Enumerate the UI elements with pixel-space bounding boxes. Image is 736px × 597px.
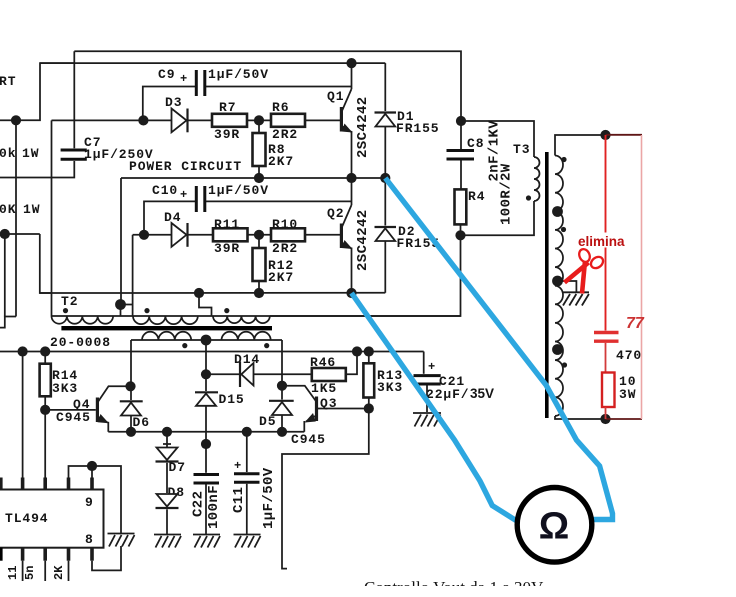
- resistor R13: [363, 363, 374, 397]
- resistor R46: [312, 368, 346, 381]
- capacitor C22 bottom lead: [205, 485, 207, 535]
- svg-text:C945: C945: [56, 410, 91, 425]
- capacitor C22 lead: [205, 444, 207, 473]
- node R46 supply tap: [352, 346, 362, 356]
- TL494 top pin stub 1: [0, 478, 3, 491]
- ground symbol under C21: [413, 413, 441, 427]
- wire winding2/3 junction riser: [199, 293, 212, 316]
- resistor bottom lead (red): [605, 407, 607, 419]
- wire corner down to lower drive wire: [40, 234, 51, 293]
- node T3 secondary top junction: [600, 130, 610, 140]
- wire right rail (faint pink): [641, 135, 643, 419]
- wire probe lead B (blue, from Q2 emitter node): [352, 293, 517, 521]
- wire rail x=22.6 down to TL494: [22, 352, 24, 479]
- transistor Q1 bar: [340, 107, 343, 132]
- node R11/R10/R12 junction: [254, 230, 264, 240]
- transformer T3 core: [545, 152, 549, 418]
- wire R4 bottom down to T2 primary return: [270, 235, 461, 316]
- resistor R4 bottom lead: [460, 224, 462, 235]
- ground symbol at T3 tap: [563, 292, 589, 305]
- label elimina (red, on white patch): [576, 233, 628, 248]
- svg-text:2R2: 2R2: [272, 127, 298, 142]
- wire base row y=235 (Q2 half): [133, 234, 340, 236]
- T2 secondary phase dot right: [264, 343, 269, 348]
- svg-text:20-0008: 20-0008: [50, 335, 111, 350]
- capacitor C9 left lead: [143, 87, 195, 121]
- svg-text:Q1: Q1: [327, 89, 344, 104]
- wire probe lead A (blue, from D1 node): [385, 178, 612, 520]
- capacitor C11 bottom lead: [246, 484, 248, 534]
- svg-text:0k: 0k: [0, 146, 16, 161]
- svg-text:1µF/50V: 1µF/50V: [261, 467, 277, 529]
- TL494 top pin stub 3: [43, 478, 47, 491]
- wire jog at rails bottom: [0, 317, 16, 328]
- TL494 top pin stub 4: [67, 478, 71, 491]
- svg-text:2SC4242: 2SC4242: [355, 96, 371, 158]
- diode D2 top lead: [384, 178, 386, 226]
- transistor Q2 bar: [340, 224, 343, 249]
- capacitor C11 lead: [246, 432, 248, 472]
- node supply to TL494 rail 1: [18, 346, 28, 356]
- svg-text:R4: R4: [468, 189, 485, 204]
- capacitor C10 plates: [195, 186, 198, 212]
- svg-text:77: 77: [626, 315, 645, 332]
- node D6 bottom: [126, 427, 136, 437]
- svg-text:2K7: 2K7: [268, 270, 294, 285]
- svg-text:Ω: Ω: [539, 506, 569, 548]
- diode D15 (cathode bar up): [205, 374, 207, 391]
- svg-text:elimina: elimina: [578, 234, 625, 249]
- capacitor C11 plates: [234, 472, 260, 475]
- T2 phase dot winding 1: [63, 308, 68, 313]
- wire bottom pin 3 lead: [44, 561, 46, 581]
- node D5 top: [277, 381, 287, 391]
- T3 secondary tap dot small top: [561, 157, 566, 162]
- wire to T3 primary top: [461, 121, 534, 157]
- transistor Q3 collector diagonal: [282, 386, 316, 402]
- wire emitter row y=431.8: [108, 431, 304, 433]
- wire blob down to baseline: [120, 305, 122, 317]
- node Q2 emitter / probe tap: [346, 288, 356, 298]
- transistor Q3 emitter with arrow: [306, 416, 316, 422]
- svg-text:T3: T3: [513, 142, 530, 157]
- resistor R14: [40, 364, 51, 397]
- wire pin 9 to ground column: [92, 466, 121, 533]
- svg-text:1µF/50V: 1µF/50V: [208, 183, 269, 198]
- wire blob to winding2 start: [121, 304, 133, 306]
- TL494 bottom pin stub 1: [0, 548, 3, 561]
- wire emitter row y=178: [121, 177, 385, 179]
- node Q1 emitter / Q2 collector: [346, 173, 356, 183]
- svg-text:C11: C11: [231, 487, 247, 513]
- svg-text:C9: C9: [158, 67, 175, 82]
- T3 secondary tap blob 3: [552, 344, 563, 355]
- resistor R8: [253, 133, 266, 166]
- node R13 bottom / Q3 base: [364, 403, 374, 413]
- capacitor C9 plates: [195, 70, 198, 96]
- node R4 bottom junction: [455, 230, 465, 240]
- wire bus y=63 from corner to D1 column: [40, 62, 385, 64]
- wire emitter row y=293: [40, 292, 386, 294]
- diode D1 top lead: [384, 63, 386, 111]
- svg-text:1W: 1W: [23, 202, 40, 217]
- svg-text:D3: D3: [165, 95, 182, 110]
- wire tap to ground: [558, 281, 577, 292]
- T3 secondary tap dot small 2: [561, 227, 566, 232]
- diode D2 (cathode bar up): [375, 226, 397, 228]
- capacitor 470uF plates (red): [594, 331, 619, 334]
- wire top rail y=51 from C7 to C8 column: [74, 51, 461, 118]
- T3 secondary bottom lead: [555, 416, 606, 419]
- capacitor C21 top lead from supply row: [423, 352, 425, 374]
- capacitor C22 plates: [194, 473, 220, 476]
- node junction at (16,120): [11, 115, 21, 125]
- svg-text:2R2: 2R2: [272, 241, 298, 256]
- resistor R12 leads: [258, 235, 260, 248]
- capacitor C10 right lead: [206, 200, 352, 202]
- TL494 bottom pin stub 2: [21, 548, 25, 561]
- resistor R6: [271, 114, 305, 127]
- node D4 anode junction: [139, 230, 149, 240]
- wire pin 8 to ground: [92, 546, 121, 570]
- svg-text:39R: 39R: [214, 127, 240, 142]
- ground symbol under D8: [154, 535, 181, 548]
- vertical rail x=5 down: [4, 234, 6, 317]
- TL494 bottom pin stub 3: [43, 548, 47, 561]
- T3 secondary tap blob 2 (ground tap): [552, 276, 563, 287]
- resistor R7: [212, 114, 247, 127]
- svg-text:1W: 1W: [22, 146, 39, 161]
- node D1 bottom / probe tap: [380, 173, 390, 183]
- node D6 top / T2 left lead: [125, 381, 135, 391]
- svg-text:+: +: [234, 459, 241, 473]
- svg-text:RT: RT: [0, 74, 16, 89]
- svg-text:35V: 35V: [470, 386, 494, 401]
- node C11 top: [242, 427, 252, 437]
- wire output cap column (red): [605, 135, 607, 331]
- capacitor C8 bottom lead: [460, 161, 462, 190]
- node R14 bottom / Q4 base: [40, 405, 50, 415]
- TL494 bottom pin stub 4: [67, 548, 71, 561]
- transistor Q4 bar: [96, 398, 99, 423]
- transistor Q1 emitter with arrow: [342, 126, 352, 132]
- node supply to R14: [40, 346, 50, 356]
- diode D7 (pointing down): [166, 432, 168, 447]
- transistor Q4 collector diagonal: [98, 386, 131, 402]
- wire from left edge at y=120: [0, 119, 16, 121]
- node pin 9 junction: [87, 461, 97, 471]
- svg-text:R11: R11: [214, 217, 240, 232]
- resistor R4: [455, 189, 467, 224]
- svg-text:R7: R7: [219, 100, 236, 115]
- capacitor to resistor lead (red): [605, 343, 607, 373]
- wire T2 secondary baseline: [131, 339, 282, 341]
- ground symbol under C11: [234, 535, 261, 548]
- T2 winding1/2 junction blob: [115, 299, 126, 310]
- diode D2 bottom lead: [384, 241, 386, 293]
- node R7/R6/R8 junction: [254, 115, 264, 125]
- resistor R14 top lead: [44, 352, 46, 364]
- resistor R14 bottom lead: [44, 396, 46, 410]
- transformer T3 secondary winding: [555, 156, 563, 416]
- transistor Q2 emitter with arrow: [342, 243, 352, 249]
- node R13 top: [364, 346, 374, 356]
- svg-text:TL494: TL494: [5, 511, 49, 526]
- wire pin 10 riser: [69, 466, 93, 478]
- diode D6 (cathode bar up): [130, 386, 132, 400]
- resistor R10: [271, 228, 305, 241]
- svg-text:100R/2W: 100R/2W: [499, 163, 515, 225]
- svg-text:0K: 0K: [0, 202, 16, 217]
- node top bus junction at Q1 collector: [346, 58, 356, 68]
- svg-text:R6: R6: [272, 100, 289, 115]
- node D3 anode junction: [138, 115, 148, 125]
- capacitor C8 plates: [447, 149, 475, 152]
- transformer T2 core: [61, 326, 272, 330]
- T2 secondary center tap blob: [201, 335, 212, 346]
- diode D4: [172, 223, 187, 247]
- node T3 secondary bottom junction: [600, 414, 610, 424]
- diode D3: [172, 109, 187, 133]
- vertical rail x=16 down: [15, 120, 17, 316]
- wire Q2 collector riser: [351, 178, 353, 205]
- wire rail x=121 down to T2: [120, 178, 122, 305]
- svg-text:C945: C945: [291, 432, 326, 447]
- node C8/R4 top junction: [456, 116, 466, 126]
- svg-text:2K: 2K: [52, 565, 66, 580]
- IC TL494 body: [0, 490, 104, 548]
- capacitor C7 bottom lead to left edge: [0, 161, 74, 178]
- ground symbol TL494: [108, 534, 135, 547]
- wire pin 9 riser: [91, 466, 93, 478]
- svg-text:3W: 3W: [619, 387, 636, 402]
- svg-text:D15: D15: [219, 392, 245, 407]
- wire bottom pin 4 lead: [68, 561, 70, 581]
- transistor Q3 bar: [315, 397, 318, 422]
- svg-text:22µF/: 22µF/: [426, 387, 470, 402]
- diode D14 (cathode bar left): [239, 362, 241, 388]
- svg-text:D4: D4: [164, 210, 181, 225]
- wire T2 secondary right lead down: [281, 340, 283, 386]
- svg-text:8: 8: [85, 532, 94, 547]
- node T2 riser: [194, 288, 204, 298]
- svg-text:D14: D14: [234, 352, 260, 367]
- svg-text:3K3: 3K3: [377, 380, 403, 395]
- wire Q1 collector riser: [351, 63, 353, 89]
- capacitor C21 plates: [414, 374, 441, 377]
- wire C10/D4 column: [132, 235, 134, 316]
- transistor Q4 emitter with arrow: [98, 417, 108, 423]
- wire R4 bottom to T3 primary bottom: [461, 201, 535, 235]
- svg-text:100nF: 100nF: [206, 485, 222, 529]
- transformer T3 primary winding: [534, 157, 540, 201]
- capacitor C10 left lead: [144, 201, 195, 234]
- T2 phase dot winding 3: [224, 308, 229, 313]
- node D5 bottom: [277, 427, 287, 437]
- svg-text:C10: C10: [152, 183, 178, 198]
- svg-text:D7: D7: [169, 460, 186, 475]
- wire top right (dark red): [606, 134, 643, 136]
- wire T2 primary left rail from power circuit: [51, 120, 53, 316]
- T2 secondary phase dot left: [182, 343, 187, 348]
- transformer T2 secondary winding left: [142, 332, 191, 340]
- node D15 top junction: [201, 369, 211, 379]
- diode D5 (cathode bar up): [281, 386, 283, 400]
- wire jog from node up to top bus y=63: [16, 63, 74, 120]
- svg-text:POWER CIRCUIT: POWER CIRCUIT: [129, 159, 242, 174]
- T3 secondary tap blob 1: [552, 206, 563, 217]
- svg-text:D5: D5: [259, 414, 276, 429]
- wire base row y=120 (Q1 half): [52, 119, 341, 121]
- T3 secondary tap dot small 3: [562, 362, 567, 367]
- wire rail x=45.2 down to TL494: [44, 410, 46, 478]
- wire T2 secondary left lead down: [130, 340, 132, 386]
- svg-text:2SC4242: 2SC4242: [355, 209, 371, 271]
- svg-text:D6: D6: [133, 415, 150, 430]
- ground symbol under C22: [193, 535, 220, 548]
- wire R46 to supply row: [346, 352, 357, 375]
- svg-text:FR155: FR155: [396, 121, 440, 136]
- node D7 top: [162, 427, 172, 437]
- diode D7-D8 link: [166, 463, 168, 493]
- TL494 top pin stub 9: [90, 478, 94, 491]
- resistor R11: [213, 228, 248, 241]
- svg-text:R46: R46: [310, 355, 336, 370]
- node C22 top: [201, 439, 211, 449]
- wire T2 center tap down to D15: [205, 340, 207, 374]
- capacitor C7 top lead: [73, 51, 75, 148]
- svg-text:470: 470: [616, 348, 642, 363]
- resistor R8 leads: [258, 120, 260, 133]
- wire Q4 base: [45, 409, 96, 411]
- svg-text:C22: C22: [191, 491, 207, 517]
- svg-text:1K5: 1K5: [311, 381, 337, 396]
- resistor R13 leads: [368, 352, 370, 364]
- svg-text:1µF/50V: 1µF/50V: [208, 67, 269, 82]
- resistor 10 3W (red): [602, 373, 615, 408]
- svg-text:R10: R10: [272, 217, 298, 232]
- node R8 bottom: [254, 173, 264, 183]
- svg-text:T2: T2: [61, 294, 78, 309]
- wire bottom pin 2 lead: [22, 561, 24, 581]
- wire Q3 base: [318, 408, 369, 410]
- transformer T2 primary winding 1: [52, 316, 114, 324]
- svg-text:5n: 5n: [23, 566, 37, 580]
- scissors (red): [565, 247, 606, 293]
- svg-text:39R: 39R: [214, 241, 240, 256]
- wire feedback loop from Q3 base down and around: [282, 409, 369, 569]
- diode D1 (cathode bar up): [375, 111, 397, 113]
- wire from left edge at y=234: [0, 233, 40, 235]
- capacitor C7 plates: [61, 149, 87, 152]
- node R12 bottom: [254, 288, 264, 298]
- wire bottom right (dark red): [606, 418, 643, 420]
- capacitor C9 right lead: [206, 86, 352, 88]
- node junction at (5,234): [0, 229, 10, 239]
- T2 phase dot winding 2: [144, 308, 149, 313]
- multimeter ohm circle: [517, 488, 592, 563]
- capacitor C21 bottom lead: [426, 386, 428, 413]
- svg-text:2K7: 2K7: [268, 154, 294, 169]
- transformer T2 primary winding 3: [213, 316, 270, 323]
- svg-text:+: +: [428, 360, 435, 374]
- wire T2 primary baseline y=316: [52, 315, 461, 317]
- transistor Q2 collector diagonal: [342, 205, 352, 228]
- diode D8 (pointing down): [157, 494, 178, 507]
- svg-text:+: +: [180, 188, 187, 202]
- resistor R12: [253, 248, 266, 281]
- transformer T2 primary winding 2: [133, 316, 198, 324]
- wire supply row y=351.5: [0, 351, 424, 353]
- wire D14/R46 row y=374.3: [206, 373, 312, 375]
- transformer T3 primary phase dot: [526, 195, 531, 200]
- svg-text:Q2: Q2: [327, 206, 344, 221]
- diode D1 bottom lead: [384, 127, 386, 179]
- svg-text:11: 11: [6, 566, 20, 580]
- transistor Q1 collector diagonal: [342, 89, 352, 112]
- svg-text:9: 9: [85, 495, 94, 510]
- svg-text:Q3: Q3: [320, 396, 337, 411]
- T3 secondary top lead: [555, 135, 606, 156]
- svg-text:C8: C8: [467, 136, 484, 151]
- capacitor C8 top lead: [460, 121, 462, 149]
- svg-text:3K3: 3K3: [52, 381, 78, 396]
- TL494 bottom pin stub 8: [90, 548, 94, 561]
- TL494 top pin stub 2: [21, 478, 25, 491]
- svg-text:+: +: [180, 72, 187, 86]
- transformer T2 secondary winding right: [222, 332, 271, 340]
